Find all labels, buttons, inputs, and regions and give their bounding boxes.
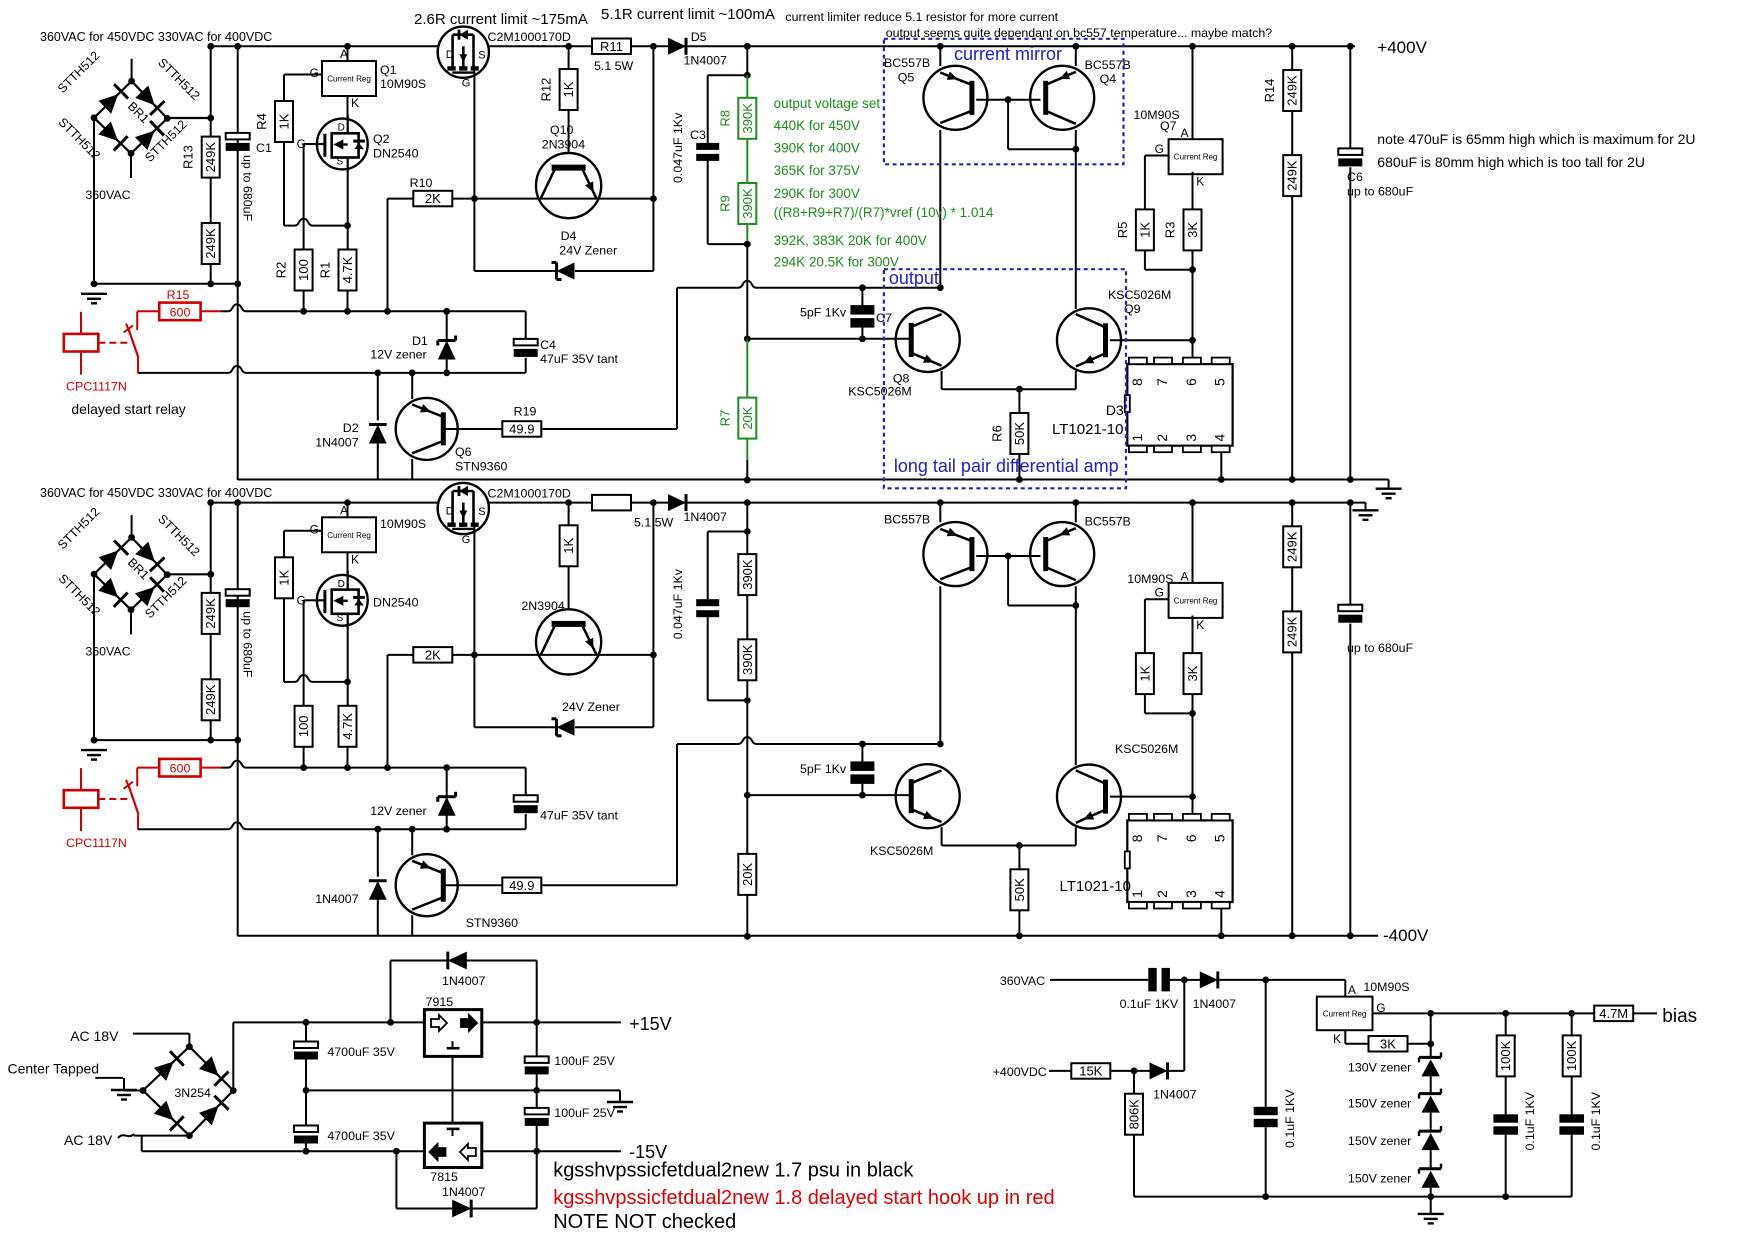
- svg-text:7815: 7815: [430, 1170, 458, 1184]
- svg-text:100: 100: [296, 259, 311, 281]
- svg-text:4.7K: 4.7K: [340, 713, 355, 740]
- svg-text:50K: 50K: [1012, 422, 1027, 445]
- svg-text:KSC5026M: KSC5026M: [1108, 288, 1171, 302]
- svg-text:3K: 3K: [1380, 1036, 1396, 1051]
- svg-text:5.1 5W: 5.1 5W: [594, 59, 634, 73]
- svg-text:R11: R11: [600, 39, 623, 54]
- svg-text:K: K: [1333, 1032, 1341, 1046]
- svg-text:50K: 50K: [1012, 878, 1027, 901]
- svg-text:Q2: Q2: [373, 132, 390, 146]
- svg-text:1K: 1K: [1137, 222, 1152, 238]
- svg-text:3K: 3K: [1185, 222, 1200, 238]
- svg-text:7: 7: [1154, 834, 1170, 842]
- svg-text:long tail pair differential am: long tail pair differential amp: [894, 456, 1119, 476]
- svg-text:CPC1117N: CPC1117N: [66, 836, 127, 850]
- svg-text:5: 5: [1212, 834, 1228, 842]
- svg-text:D5: D5: [691, 30, 707, 44]
- svg-text:KSC5026M: KSC5026M: [1115, 742, 1178, 756]
- svg-text:0.047uF 1Kv: 0.047uF 1Kv: [671, 112, 685, 183]
- svg-text:4.7M: 4.7M: [1599, 1006, 1628, 1021]
- svg-text:2K: 2K: [425, 647, 441, 662]
- svg-text:D: D: [338, 123, 345, 134]
- svg-text:0.1uF 1KV: 0.1uF 1KV: [1120, 997, 1179, 1011]
- svg-text:up to 680uF: up to 680uF: [1347, 641, 1414, 655]
- svg-text:K: K: [351, 96, 359, 110]
- svg-text:C4: C4: [540, 338, 556, 352]
- svg-text:4700uF 35V: 4700uF 35V: [327, 1045, 395, 1059]
- svg-text:Current Reg: Current Reg: [327, 531, 371, 540]
- svg-text:Q8: Q8: [893, 372, 910, 386]
- svg-text:K: K: [351, 552, 359, 566]
- svg-text:5: 5: [1212, 378, 1228, 386]
- svg-text:AC 18V: AC 18V: [64, 1132, 113, 1148]
- svg-text:D4: D4: [561, 229, 577, 243]
- svg-text:4.7K: 4.7K: [340, 256, 355, 283]
- svg-text:100uF 25V: 100uF 25V: [554, 1054, 615, 1068]
- svg-text:Q5: Q5: [898, 71, 915, 85]
- svg-text:1N4007: 1N4007: [442, 1185, 486, 1199]
- svg-text:2: 2: [1154, 434, 1170, 442]
- svg-text:C1: C1: [256, 141, 272, 155]
- svg-text:3N254: 3N254: [174, 1086, 211, 1100]
- svg-text:D: D: [446, 49, 454, 61]
- svg-text:G: G: [1155, 142, 1164, 156]
- svg-text:1K: 1K: [561, 538, 576, 554]
- svg-text:294K 20.5K for 300V: 294K 20.5K for 300V: [774, 255, 899, 270]
- svg-text:365K for 375V: 365K for 375V: [774, 163, 860, 178]
- svg-text:7915: 7915: [426, 995, 454, 1009]
- svg-text:249K: 249K: [203, 142, 218, 173]
- svg-text:1N4007: 1N4007: [442, 974, 486, 988]
- svg-text:2: 2: [1154, 890, 1170, 898]
- svg-text:-400V: -400V: [1383, 926, 1429, 945]
- svg-text:note 470uF is 65mm high which: note 470uF is 65mm high which is maximum…: [1377, 131, 1695, 147]
- svg-text:D: D: [446, 506, 454, 518]
- svg-text:1N4007: 1N4007: [1193, 997, 1237, 1011]
- svg-text:0.1uF 1KV: 0.1uF 1KV: [1589, 1091, 1603, 1150]
- svg-text:10M90S: 10M90S: [1363, 980, 1409, 994]
- svg-text:D: D: [338, 579, 345, 590]
- svg-text:S: S: [336, 613, 343, 624]
- svg-text:150V zener: 150V zener: [1348, 1172, 1411, 1186]
- svg-text:delayed start relay: delayed start relay: [71, 401, 185, 417]
- svg-text:360VAC for 450VDC 330VAC for 4: 360VAC for 450VDC 330VAC for 400VDC: [40, 30, 272, 44]
- svg-text:24V Zener: 24V Zener: [559, 244, 617, 258]
- svg-text:output voltage set: output voltage set: [774, 96, 881, 111]
- svg-text:R4: R4: [254, 113, 269, 130]
- svg-text:5.1R current limit ~100mA: 5.1R current limit ~100mA: [601, 6, 775, 23]
- svg-text:STN9360: STN9360: [455, 460, 507, 474]
- svg-text:R1: R1: [318, 262, 333, 279]
- svg-text:249K: 249K: [203, 598, 218, 629]
- svg-text:+400V: +400V: [1377, 38, 1427, 57]
- svg-text:1N4007: 1N4007: [684, 510, 728, 524]
- svg-text:249K: 249K: [1285, 531, 1300, 562]
- svg-text:150V zener: 150V zener: [1348, 1097, 1411, 1111]
- svg-text:R7: R7: [717, 410, 732, 427]
- svg-text:1N4007: 1N4007: [315, 892, 359, 906]
- svg-text:3: 3: [1183, 434, 1199, 442]
- svg-text:2K: 2K: [425, 191, 441, 206]
- svg-text:2N3904: 2N3904: [542, 138, 586, 152]
- svg-text:Q4: Q4: [1100, 72, 1117, 86]
- svg-text:390K: 390K: [740, 644, 755, 675]
- svg-text:+15V: +15V: [629, 1014, 672, 1034]
- svg-text:100K: 100K: [1498, 1040, 1513, 1071]
- svg-text:A: A: [1348, 983, 1356, 997]
- svg-text:10M90S: 10M90S: [380, 77, 426, 91]
- svg-text:360VAC: 360VAC: [85, 644, 130, 658]
- svg-text:current mirror: current mirror: [954, 44, 1062, 64]
- svg-text:Q10: Q10: [550, 123, 574, 137]
- svg-text:49.9: 49.9: [509, 878, 534, 893]
- svg-text:360VAC: 360VAC: [1000, 974, 1045, 988]
- svg-text:6: 6: [1183, 834, 1199, 842]
- svg-text:15K: 15K: [1079, 1063, 1102, 1078]
- svg-text:R15: R15: [167, 288, 190, 302]
- svg-text:0.1uF 1KV: 0.1uF 1KV: [1283, 1089, 1297, 1148]
- svg-text:DN2540: DN2540: [373, 147, 419, 161]
- svg-text:12V zener: 12V zener: [370, 804, 426, 818]
- svg-text:2.6R current limit ~175mA: 2.6R current limit ~175mA: [414, 11, 588, 28]
- svg-text:6: 6: [1183, 378, 1199, 386]
- svg-text:R9: R9: [717, 195, 732, 212]
- svg-text:600: 600: [170, 762, 191, 776]
- svg-text:LT1021-10: LT1021-10: [1052, 421, 1123, 438]
- svg-text:G: G: [310, 66, 319, 80]
- svg-text:806K: 806K: [1127, 1099, 1142, 1130]
- svg-text:up to 680uF: up to 680uF: [241, 611, 255, 678]
- svg-text:A: A: [1180, 126, 1188, 140]
- svg-text:1K: 1K: [277, 113, 292, 129]
- svg-text:47uF 35V tant: 47uF 35V tant: [540, 352, 618, 366]
- svg-text:KSC5026M: KSC5026M: [870, 844, 933, 858]
- svg-text:G: G: [310, 522, 319, 536]
- svg-text:20K: 20K: [740, 863, 755, 886]
- svg-text:1N4007: 1N4007: [315, 436, 359, 450]
- svg-text:150V zener: 150V zener: [1348, 1134, 1411, 1148]
- svg-text:C3: C3: [690, 128, 706, 142]
- svg-text:KSC5026M: KSC5026M: [848, 385, 911, 399]
- svg-text:C2M1000170D: C2M1000170D: [488, 30, 571, 44]
- svg-text:100K: 100K: [1564, 1040, 1579, 1071]
- svg-text:100: 100: [296, 715, 311, 737]
- svg-text:249K: 249K: [203, 684, 218, 715]
- svg-text:Q6: Q6: [455, 445, 472, 459]
- svg-text:R19: R19: [514, 405, 537, 419]
- svg-text:D2: D2: [343, 421, 359, 435]
- svg-text:Current Reg: Current Reg: [1174, 596, 1218, 605]
- svg-text:0.047uF 1Kv: 0.047uF 1Kv: [671, 568, 685, 639]
- svg-text:249K: 249K: [1285, 160, 1300, 191]
- svg-text:up to 680uF: up to 680uF: [241, 155, 255, 222]
- svg-text:STN9360: STN9360: [466, 916, 518, 930]
- svg-text:3: 3: [1183, 890, 1199, 898]
- svg-text:249K: 249K: [1285, 616, 1300, 647]
- svg-text:C6: C6: [1347, 170, 1363, 184]
- svg-text:Current Reg: Current Reg: [1323, 1009, 1367, 1018]
- svg-text:bias: bias: [1662, 1006, 1697, 1027]
- svg-text:R14: R14: [1262, 79, 1277, 103]
- svg-text:0.1uF 1KV: 0.1uF 1KV: [1523, 1091, 1537, 1150]
- svg-text:10M90S: 10M90S: [380, 517, 426, 531]
- svg-text:S: S: [478, 50, 485, 62]
- svg-text:Center Tapped: Center Tapped: [8, 1061, 100, 1077]
- svg-text:390K for 400V: 390K for 400V: [774, 141, 860, 156]
- svg-text:C2M1000170D: C2M1000170D: [488, 486, 571, 500]
- svg-text:R13: R13: [181, 145, 196, 169]
- svg-text:4700uF 35V: 4700uF 35V: [327, 1129, 395, 1143]
- svg-text:A: A: [340, 47, 348, 61]
- svg-text:R3: R3: [1163, 222, 1178, 239]
- svg-text:BC557B: BC557B: [1085, 514, 1131, 528]
- svg-text:G: G: [462, 534, 471, 546]
- svg-text:D3: D3: [1106, 402, 1124, 418]
- svg-text:249K: 249K: [203, 228, 218, 259]
- svg-text:680uF is 80mm high which is to: 680uF is 80mm high which is too tall for…: [1377, 154, 1645, 170]
- svg-text:DN2540: DN2540: [373, 595, 419, 609]
- svg-text:5pF 1Kv: 5pF 1Kv: [800, 306, 847, 320]
- svg-text:+400VDC: +400VDC: [993, 1065, 1047, 1079]
- svg-text:24V Zener: 24V Zener: [562, 700, 620, 714]
- svg-text:NOTE NOT checked: NOTE NOT checked: [553, 1211, 736, 1233]
- svg-text:G: G: [1155, 586, 1164, 600]
- svg-text:G: G: [462, 78, 471, 90]
- svg-text:1: 1: [1129, 434, 1145, 442]
- svg-text:D1: D1: [412, 334, 428, 348]
- svg-text:4: 4: [1212, 890, 1228, 898]
- svg-text:390K: 390K: [740, 188, 755, 219]
- svg-text:R8: R8: [717, 110, 732, 127]
- svg-text:kgsshvpssicfetdual2new 1.8 del: kgsshvpssicfetdual2new 1.8 delayed start…: [553, 1187, 1054, 1209]
- svg-text:1N4007: 1N4007: [1153, 1088, 1197, 1102]
- svg-text:130V zener: 130V zener: [1348, 1060, 1411, 1074]
- svg-text:100uF 25V: 100uF 25V: [554, 1106, 615, 1120]
- svg-text:current limiter reduce 5.1 res: current limiter reduce 5.1 resistor for …: [785, 10, 1058, 24]
- svg-text:47uF 35V tant: 47uF 35V tant: [540, 808, 618, 822]
- svg-text:360VAC: 360VAC: [85, 188, 130, 202]
- svg-text:S: S: [336, 157, 343, 168]
- svg-text:R10: R10: [410, 176, 433, 190]
- svg-text:1K: 1K: [561, 81, 576, 97]
- svg-text:392K, 383K 20K for 400V: 392K, 383K 20K for 400V: [774, 233, 927, 248]
- svg-text:BC557B: BC557B: [884, 512, 930, 526]
- svg-text:Q1: Q1: [380, 63, 397, 77]
- svg-text:49.9: 49.9: [509, 422, 534, 437]
- svg-text:8: 8: [1129, 378, 1145, 386]
- svg-text:8: 8: [1129, 834, 1145, 842]
- svg-text:Current Reg: Current Reg: [1174, 153, 1218, 162]
- svg-text:360VAC for 450VDC 330VAC for 4: 360VAC for 450VDC 330VAC for 400VDC: [40, 486, 272, 500]
- svg-text:LT1021-10: LT1021-10: [1060, 878, 1131, 895]
- svg-text:Current Reg: Current Reg: [327, 75, 371, 84]
- svg-text:kgsshvpssicfetdual2new 1.7 psu: kgsshvpssicfetdual2new 1.7 psu in black: [553, 1160, 914, 1182]
- svg-text:249K: 249K: [1285, 75, 1300, 106]
- svg-text:S: S: [478, 506, 485, 518]
- svg-text:R5: R5: [1115, 222, 1130, 239]
- svg-text:1K: 1K: [1137, 665, 1152, 681]
- svg-text:390K: 390K: [740, 103, 755, 134]
- svg-text:600: 600: [170, 305, 191, 319]
- svg-text:R6: R6: [989, 425, 1004, 442]
- svg-text:3K: 3K: [1185, 665, 1200, 681]
- svg-text:R2: R2: [274, 262, 289, 279]
- svg-text:290K for 300V: 290K for 300V: [774, 186, 860, 201]
- svg-text:A: A: [340, 503, 348, 517]
- svg-text:AC 18V: AC 18V: [70, 1028, 119, 1044]
- svg-text:440K for 450V: 440K for 450V: [774, 118, 860, 133]
- svg-text:1K: 1K: [277, 570, 292, 586]
- svg-text:1N4007: 1N4007: [684, 54, 728, 68]
- svg-text:A: A: [1180, 570, 1188, 584]
- svg-text:K: K: [1196, 618, 1204, 632]
- svg-text:2N3904: 2N3904: [521, 599, 565, 613]
- svg-text:390K: 390K: [740, 559, 755, 590]
- svg-text:12V zener: 12V zener: [370, 348, 426, 362]
- svg-text:1: 1: [1129, 890, 1145, 898]
- svg-text:4: 4: [1212, 434, 1228, 442]
- svg-text:5pF 1Kv: 5pF 1Kv: [800, 762, 847, 776]
- svg-text:output: output: [889, 268, 939, 288]
- svg-text:Q7: Q7: [1160, 119, 1177, 133]
- svg-text:R12: R12: [539, 78, 554, 102]
- svg-text:20K: 20K: [740, 406, 755, 429]
- svg-text:K: K: [1196, 175, 1204, 189]
- svg-text:up to 680uF: up to 680uF: [1347, 185, 1414, 199]
- svg-text:10M90S: 10M90S: [1127, 572, 1173, 586]
- svg-text:CPC1117N: CPC1117N: [66, 380, 127, 394]
- svg-text:((R8+R9+R7)/(R7)*vref (10v) *: ((R8+R9+R7)/(R7)*vref (10v) * 1.014: [774, 205, 994, 220]
- svg-text:BC557B: BC557B: [884, 56, 930, 70]
- svg-text:7: 7: [1154, 378, 1170, 386]
